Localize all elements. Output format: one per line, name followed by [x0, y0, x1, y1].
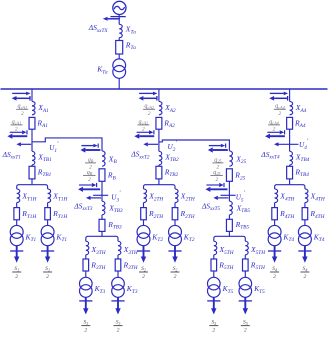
wire R_TB1 to split — [31, 179, 33, 185]
arrow S left bold (branch 4) — [270, 135, 285, 137]
inductor X_B — [102, 151, 105, 166]
resistor R_TB5 — [226, 219, 232, 231]
svg-text:2: 2 — [46, 274, 49, 280]
wire to resistor (left) — [85, 255, 87, 259]
arrow dS_xxT2 (left) — [148, 143, 158, 145]
resistor R_2TN (right) — [172, 208, 178, 220]
arrow S right (branch B) — [79, 184, 92, 186]
arrow q right (branch 1) — [12, 92, 26, 94]
svg-text:2: 2 — [88, 177, 91, 183]
wire to resistor (left) — [274, 203, 276, 208]
arrow dS_xxT3 (left) — [91, 197, 102, 199]
wire to transformer (left) — [274, 220, 276, 226]
resistor R_B — [99, 169, 105, 182]
arrow S left bold (branch 2) — [139, 135, 154, 137]
wire bus to X_A4 — [289, 89, 291, 101]
wire R_TB4 to split — [289, 179, 291, 185]
inductor X_TB4 — [290, 151, 293, 165]
resistor R_25 — [226, 169, 232, 182]
arrow S left bold (branch 25) — [210, 188, 227, 190]
arrow dS_xxT4 (left) — [279, 143, 299, 145]
transformer K_Ta — [113, 59, 126, 72]
transformer K_T4 (left) — [268, 225, 281, 238]
wire to resistor (right) — [117, 255, 119, 259]
wire to resistor (right) — [244, 255, 246, 259]
load feeder (left) — [213, 297, 215, 309]
transformer K_T1 (right) — [41, 225, 54, 238]
wire to transformer (right) — [174, 220, 176, 226]
resistor R_TB4 — [287, 166, 293, 179]
arrow S left bold (branch 1) — [12, 135, 27, 137]
svg-text:S1: S1 — [14, 266, 19, 272]
wire R_TB5 to split — [228, 231, 230, 236]
svg-text:2: 2 — [84, 328, 87, 334]
resistor R_3TN (right) — [115, 259, 121, 271]
svg-text:S4: S4 — [272, 266, 277, 272]
inductor X_5TN (right) — [245, 241, 248, 255]
arrow S right (branch 25) — [206, 184, 219, 186]
wire to transformer (left) — [16, 220, 18, 226]
wire to resistor (left) — [143, 203, 145, 208]
arrow dS_xxT5 (left) — [218, 197, 229, 199]
wire to R_TB1 — [31, 165, 33, 166]
svg-text:2: 2 — [279, 111, 282, 117]
inductor X_25 — [229, 151, 232, 166]
inductor X_3TN (left) — [86, 241, 89, 255]
resistor R_Ta — [116, 41, 123, 55]
wire R_TB3 to split — [101, 231, 103, 236]
resistor R_5TN (right) — [243, 259, 249, 271]
inductor X_T1N (left) — [17, 189, 20, 203]
resistor R_T1N (left) — [14, 208, 20, 220]
wire to transformer (left) — [143, 220, 145, 226]
load feeder (left) — [274, 246, 276, 259]
svg-text:S3: S3 — [116, 320, 121, 326]
resistor R_A2 — [156, 117, 162, 129]
svg-text:2: 2 — [216, 177, 219, 183]
resistor R_5TN (left) — [211, 259, 217, 271]
wire to transformer (right) — [304, 220, 306, 226]
svg-text:2: 2 — [217, 165, 220, 171]
svg-text:2: 2 — [117, 328, 120, 334]
split bar branch 3 — [86, 236, 118, 241]
wire R_25 to node U5 — [228, 181, 230, 201]
arrow dS_xxTX (left) — [108, 18, 120, 20]
resistor R_TB3 — [99, 219, 105, 231]
node U5 tick — [221, 194, 236, 196]
arrow q right (branch B) — [81, 145, 93, 147]
load feeder (right) — [47, 246, 49, 259]
svg-text:2: 2 — [303, 274, 306, 280]
wire bus to X_A2 — [158, 89, 160, 101]
inductor X_4TN (left) — [275, 189, 278, 203]
load feeder (left) — [85, 297, 87, 309]
resistor R_A4 — [287, 117, 293, 129]
inductor X_4TN (right) — [305, 189, 308, 203]
arrow q right (branch 25) — [209, 145, 221, 147]
inductor X_Ta — [119, 24, 122, 37]
wire bus to X_A1 — [31, 89, 33, 101]
inductor X_A2 — [159, 101, 162, 114]
split bar branch 4 — [275, 185, 305, 189]
transformer K_T1 (left) — [10, 225, 23, 238]
inductor X_A4 — [290, 101, 293, 114]
wire R_A2 to node U2 — [158, 129, 160, 151]
wire R_B to node U3 — [101, 181, 103, 201]
transformer K_T2 (right) — [169, 225, 182, 238]
wire to resistor (left) — [213, 255, 215, 259]
wire to R_TB5 — [228, 215, 230, 220]
arrow S right (branch 1) — [10, 131, 22, 133]
transformer K_T5 (left) — [208, 277, 221, 290]
arrow q left bold (branch B) — [85, 149, 100, 151]
resistor R_2TN (left) — [141, 208, 147, 220]
inductor X_3TN (right) — [118, 241, 121, 255]
wire to transformer (left) — [85, 271, 87, 277]
resistor R_3TN (left) — [83, 259, 89, 271]
wire to resistor (right) — [174, 203, 176, 208]
wire link U2 to X_25 — [159, 140, 230, 151]
HV busbar — [1, 88, 328, 90]
resistor R_TB1 — [29, 166, 35, 179]
load feeder (right) — [117, 297, 119, 309]
node U3 tick — [93, 194, 108, 196]
svg-text:2: 2 — [15, 274, 18, 280]
arrow q right (branch 2) — [139, 92, 153, 94]
split bar branch 2 — [144, 185, 176, 189]
arrow q left (branch 4) — [274, 97, 288, 99]
resistor R_A1 — [29, 117, 35, 129]
resistor R_4TN (right) — [302, 208, 308, 220]
wire to resistor (right) — [304, 203, 306, 208]
arrow q left (branch 1) — [17, 97, 31, 99]
wire to transformer (left) — [213, 271, 215, 277]
node bar below source — [110, 16, 125, 18]
arrow q left (branch 2) — [143, 97, 157, 99]
wire to transformer (right) — [47, 220, 49, 226]
inductor X_2TN (left) — [144, 189, 147, 203]
load feeder (right) — [304, 246, 306, 259]
wire to resistor (left) — [16, 203, 18, 208]
wire resistor to transformer K_Ta — [118, 54, 120, 59]
wire R_A4 to node U4 — [289, 129, 291, 151]
svg-text:S4: S4 — [302, 266, 307, 272]
svg-text:S3: S3 — [83, 320, 88, 326]
svg-text:S1: S1 — [45, 266, 50, 272]
resistor R_TB2 — [156, 166, 162, 179]
svg-text:2: 2 — [174, 274, 177, 280]
inductor X_2TN (right) — [175, 189, 178, 203]
transformer K_T3 (left) — [80, 277, 93, 290]
inductor X_T1N (right) — [48, 189, 51, 203]
wire to R_TB4 — [289, 165, 291, 166]
svg-text:S5: S5 — [243, 320, 248, 326]
split bar branch 1 — [17, 185, 48, 189]
wire source down — [118, 15, 120, 25]
wire link U1 to X_B — [32, 138, 102, 151]
wire to transformer (right) — [117, 271, 119, 277]
inductor X_TB3 — [102, 201, 105, 215]
resistor R_4TN (left) — [272, 208, 278, 220]
svg-text:S2: S2 — [173, 266, 178, 272]
arrow dS_xxT1 (left) — [21, 143, 31, 145]
load feeder (right) — [174, 246, 176, 259]
svg-text:2: 2 — [142, 274, 145, 280]
transformer K_T3 (right) — [112, 277, 125, 290]
transformer K_T5 (right) — [239, 277, 252, 290]
svg-text:2: 2 — [148, 111, 151, 117]
split bar branch 5 — [214, 236, 246, 241]
svg-text:2: 2 — [212, 328, 215, 334]
wire to R_TB2 — [158, 165, 160, 166]
svg-text:2: 2 — [273, 274, 276, 280]
AC source G (system) — [113, 1, 126, 14]
wire to resistor (right) — [47, 203, 49, 208]
transformer K_T2 (left) — [137, 225, 150, 238]
wire to R_TB3 — [101, 215, 103, 220]
resistor R_T1N (right) — [45, 208, 51, 220]
inductor X_TB1 — [32, 151, 35, 165]
load feeder (left) — [143, 246, 145, 259]
svg-text:S2: S2 — [141, 266, 146, 272]
wire R_A1 to node U1 — [31, 129, 33, 151]
arrow S right (branch 2) — [137, 131, 149, 133]
wire to transformer (right) — [244, 271, 246, 277]
wire coil to resistor — [118, 38, 120, 41]
transformer K_T4 (right) — [298, 225, 311, 238]
arrow S left bold (branch B) — [83, 188, 100, 190]
svg-text:2: 2 — [21, 111, 24, 117]
inductor X_5TN (left) — [214, 241, 217, 255]
load feeder (right) — [244, 297, 246, 309]
load feeder (left) — [16, 246, 18, 259]
arrow q right (branch 4) — [270, 92, 284, 94]
wire K_Ta to bus — [118, 78, 120, 89]
inductor X_TB2 — [159, 151, 162, 165]
svg-text:2: 2 — [244, 328, 247, 334]
svg-text:S5: S5 — [211, 320, 216, 326]
inductor X_TB5 — [229, 201, 232, 215]
arrow S right (branch 4) — [267, 131, 279, 133]
arrow q left bold (branch 25) — [213, 149, 228, 151]
inductor X_A1 — [32, 101, 35, 114]
wire R_TB2 to split — [158, 179, 160, 185]
